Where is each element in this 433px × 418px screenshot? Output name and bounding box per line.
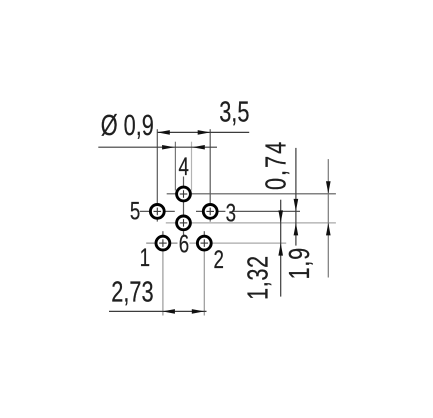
dimension line 1,32 (vertical)	[280, 200, 282, 297]
wire: pin6 vertical centerline below circle	[183, 231, 185, 237]
wire: pin2 vertical extension line down	[203, 251, 205, 315]
wire: pin5/pin3 horizontal centerline segment at pin3	[196, 210, 225, 212]
svg-text:2: 2	[214, 246, 224, 274]
svg-text:3: 3	[226, 199, 236, 227]
wire: pin5/pin3 horizontal centerline segment at pin5	[140, 210, 175, 212]
wire: pin1/pin2 horizontal centerline + extension right of label 6	[190, 242, 287, 244]
svg-text:1,9: 1,9	[284, 247, 316, 279]
wire: pin6 horizontal centerline + extension to right	[166, 222, 336, 224]
svg-text:1,32: 1,32	[242, 255, 274, 300]
svg-text:6: 6	[179, 230, 189, 258]
svg-text:Ø 0,9: Ø 0,9	[101, 110, 154, 142]
svg-text:5: 5	[130, 197, 140, 225]
wire: pin2 vertical tick above circle	[203, 231, 205, 235]
wire: pin1/pin2 horizontal centerline left of label 6	[146, 242, 177, 244]
wire: pin5 vertical extension line	[156, 129, 158, 221]
wire: pin4 left circle-edge projection for diameter	[174, 142, 176, 191]
wire: pin4 right circle-edge projection for diameter	[191, 142, 193, 191]
wire: pin1 vertical extension line down	[162, 251, 164, 315]
wire: pin5/pin3 centerline extension right of label 3	[234, 210, 300, 212]
pin 2 (contact circle)	[197, 236, 211, 250]
pin 5 (contact circle)	[150, 205, 164, 219]
svg-text:0,74: 0,74	[260, 140, 292, 190]
svg-text:3,5: 3,5	[219, 97, 249, 129]
pin 3 (contact circle)	[203, 205, 217, 219]
wire: pin3 vertical extension line	[209, 129, 211, 221]
svg-text:2,73: 2,73	[111, 277, 153, 309]
wire: pin1 vertical tick above circle	[162, 231, 164, 235]
dimension line 1,9 (vertical)	[327, 159, 329, 277]
dimension line 3,5	[157, 131, 249, 133]
pin 4 (contact circle)	[177, 187, 191, 201]
pin 6 (contact circle, center)	[177, 216, 191, 230]
dimension line 2,73	[109, 310, 207, 312]
svg-text:1: 1	[140, 244, 150, 272]
wire: pin4 horizontal centerline + extension to right	[167, 193, 336, 195]
dimension line diameter 0,9	[98, 146, 217, 148]
dimension line 0,74 (vertical)	[295, 148, 297, 246]
wire: pin4 vertical centerline below label 4	[183, 177, 185, 215]
svg-text:4: 4	[179, 152, 189, 180]
pin 1 (contact circle)	[156, 236, 170, 250]
